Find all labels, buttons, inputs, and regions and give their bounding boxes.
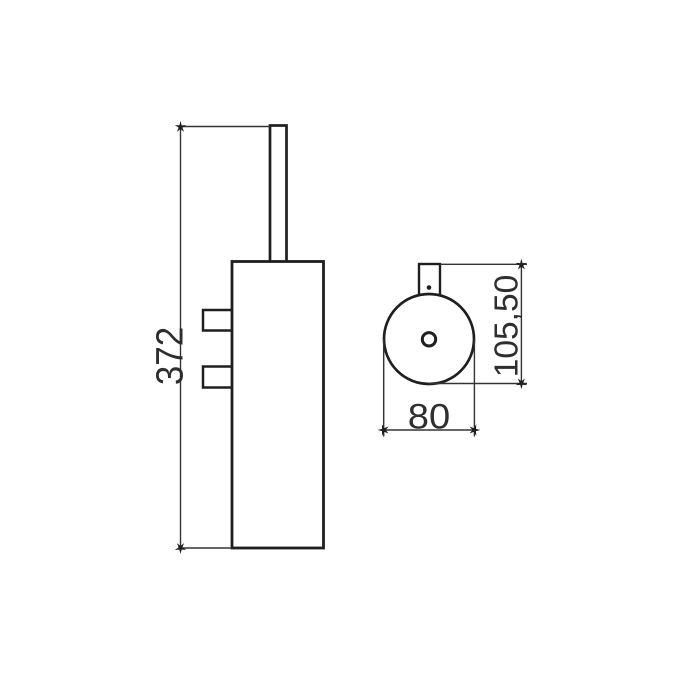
- arrow star top of 105,50 line: [516, 259, 527, 270]
- arrow star bottom of 372 line: [175, 543, 186, 554]
- bracket screw dot: [427, 285, 432, 290]
- wall bracket (top view): [419, 264, 440, 300]
- depth dimension line 105,50: [520, 263, 522, 386]
- width dimension line 80: [382, 429, 476, 431]
- height dimension line 372: [180, 125, 182, 550]
- holder body (side view): [232, 262, 324, 549]
- center hub ring: [422, 333, 435, 346]
- extension line top (372 dimension): [179, 126, 271, 128]
- brush handle (side view): [270, 126, 287, 263]
- extension line top (105,50 dimension): [440, 263, 527, 265]
- extension line bottom (105,50 dimension): [429, 383, 527, 385]
- label 372: [148, 327, 191, 385]
- label 105,50: [489, 275, 526, 377]
- arrow star bottom of 105,50 line: [516, 378, 527, 389]
- svg-text:80: 80: [408, 397, 450, 436]
- arrow star top of 372 line: [175, 121, 186, 132]
- label 80: [408, 397, 450, 436]
- holder circle (top view): [384, 294, 474, 384]
- extension line right (80 dimension): [473, 339, 475, 437]
- arrow star left of 80 line: [378, 424, 389, 435]
- extension line left (80 dimension): [383, 339, 385, 437]
- svg-text:372: 372: [148, 327, 191, 385]
- mounting tab lower (side view): [203, 367, 233, 388]
- svg-text:105,50: 105,50: [489, 275, 526, 377]
- arrow star right of 80 line: [470, 424, 481, 435]
- extension line bottom (372 dimension): [179, 547, 232, 549]
- mounting tab upper (side view): [203, 310, 233, 331]
